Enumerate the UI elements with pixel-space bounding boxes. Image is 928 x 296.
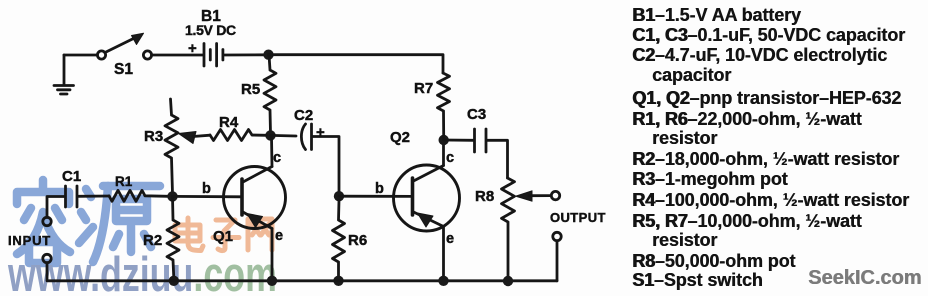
resistor R3 xyxy=(165,99,178,194)
input terminal top xyxy=(43,217,51,225)
node rail-R6 xyxy=(333,276,343,286)
wire input bottom to rail xyxy=(47,263,174,281)
node D (Q2 base junction) xyxy=(334,191,344,201)
svg-text:R8: R8 xyxy=(475,188,494,205)
svg-text:R6: R6 xyxy=(348,232,367,249)
output terminal bottom xyxy=(553,232,561,240)
wire node D to Q2 base xyxy=(339,195,413,198)
wire battery to node A xyxy=(225,53,269,56)
resistor R8 (pot) xyxy=(502,178,515,279)
wire node C to Q1 base xyxy=(173,195,243,198)
node A (V+ junction) xyxy=(263,50,273,60)
node E (R7/C3/Q2-c junction) xyxy=(439,135,449,145)
wire C2 to Q2 base xyxy=(313,137,340,195)
svg-text:c: c xyxy=(446,150,454,166)
svg-text:Q1: Q1 xyxy=(213,228,233,245)
wire input to C1 xyxy=(47,197,64,218)
wire output bottom to rail xyxy=(556,241,559,281)
wire node B to C2 xyxy=(271,134,297,137)
svg-text:R2: R2 xyxy=(143,232,162,249)
svg-text:c: c xyxy=(273,150,281,166)
svg-text:+: + xyxy=(188,40,197,57)
capacitor C2 xyxy=(301,124,311,150)
svg-text:C1: C1 xyxy=(62,168,81,185)
svg-text:b: b xyxy=(202,181,211,197)
watermark hanzi wang xyxy=(248,219,272,250)
resistor R1 xyxy=(109,190,168,201)
battery B1 xyxy=(204,44,223,67)
transistor Q1 xyxy=(224,167,286,229)
svg-text:R7: R7 xyxy=(414,80,433,97)
R3 wiper arrow from R4 xyxy=(179,132,211,144)
wire S1 to battery xyxy=(152,54,203,57)
bottom rail xyxy=(174,279,557,282)
svg-text:R5: R5 xyxy=(241,81,260,98)
resistor R5 xyxy=(264,55,276,133)
node rail-R8 xyxy=(503,276,513,286)
wire ground to S1 xyxy=(64,54,98,57)
watermark hanzi rong xyxy=(17,180,70,263)
svg-text:R4: R4 xyxy=(219,114,239,131)
wire top rail to R7 xyxy=(269,55,444,73)
svg-text:+: + xyxy=(316,124,325,141)
svg-text:www.dziuu: www.dziuu xyxy=(7,248,193,296)
resistor R2 xyxy=(167,196,179,278)
watermark url www.dziuu.com xyxy=(7,248,277,296)
node C (Q1 base junction) xyxy=(167,191,177,201)
output terminal top xyxy=(551,191,559,199)
ground xyxy=(54,55,74,94)
wire Q1 collector to node B xyxy=(270,137,273,167)
wire C3 to R8 xyxy=(488,140,508,178)
watermark hanzi dian xyxy=(175,218,203,251)
resistor R4 xyxy=(210,130,267,141)
capacitor C1 xyxy=(66,186,78,207)
svg-text:OUTPUT: OUTPUT xyxy=(550,210,606,225)
svg-text:Q2: Q2 xyxy=(390,129,410,146)
svg-text:S1: S1 xyxy=(114,61,133,78)
node B (R5/R4/C2/Q1-c junction) xyxy=(265,130,275,140)
watermark layer xyxy=(7,180,277,296)
svg-text:C3: C3 xyxy=(467,106,486,123)
transistor Q2 xyxy=(394,165,460,231)
resistor R6 xyxy=(333,200,345,278)
svg-text:1.5V DC: 1.5V DC xyxy=(185,22,236,38)
wire Q1 emitter to rail xyxy=(271,229,274,280)
capacitor C3 xyxy=(475,129,487,152)
watermark hanzi zi xyxy=(213,220,239,251)
svg-text:R1: R1 xyxy=(115,174,133,189)
svg-text:b: b xyxy=(375,181,384,197)
node rail-R2 xyxy=(169,276,179,286)
svg-text:C2: C2 xyxy=(294,107,313,124)
switch S1 xyxy=(97,33,151,59)
watermark hanzi yuan xyxy=(79,186,160,262)
wire C1 to R1 xyxy=(79,195,110,198)
R8 wiper arrow xyxy=(516,191,552,201)
node rail-Q1e xyxy=(267,276,277,286)
schematic layer xyxy=(43,33,561,286)
svg-text:INPUT: INPUT xyxy=(8,233,51,248)
node rail-Q2e xyxy=(438,276,448,286)
wire Q2 emitter to rail xyxy=(442,227,445,280)
input terminal bottom xyxy=(43,254,51,262)
svg-text:e: e xyxy=(275,228,283,244)
svg-text:R3: R3 xyxy=(144,128,163,145)
svg-text:.com: .com xyxy=(193,248,276,296)
resistor R7 xyxy=(438,73,450,138)
svg-text:e: e xyxy=(446,231,454,247)
wire node E to C3 xyxy=(444,139,473,142)
wire Q2 collector to node E xyxy=(442,142,445,166)
